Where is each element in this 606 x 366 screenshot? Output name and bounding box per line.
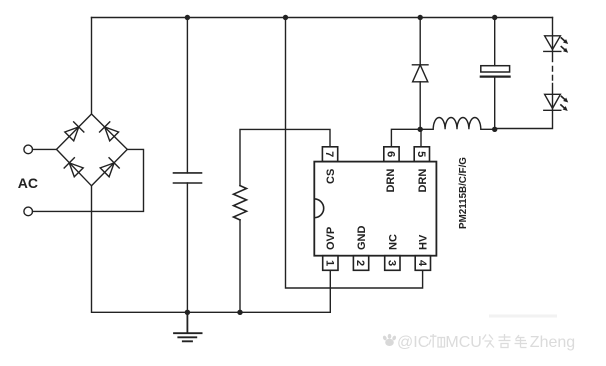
svg-text:CS: CS [325, 169, 337, 184]
svg-text:Zheng: Zheng [530, 334, 575, 351]
watermark faint upper remnant [489, 315, 557, 318]
svg-text:@IC: @IC [397, 334, 429, 351]
bridge rectifier diamond [57, 114, 128, 186]
svg-text:1: 1 [323, 260, 335, 266]
wire CS pin7 to resistor top [240, 129, 330, 185]
node dot switch node [418, 127, 423, 132]
node dot top bus / D5 [418, 15, 423, 20]
LED LED2 [544, 94, 570, 112]
AC terminal upper [24, 145, 33, 154]
wire LED string bottom [495, 84, 553, 129]
IC U1 notch [314, 199, 323, 218]
resistor R1 [234, 186, 247, 220]
svg-text:6: 6 [384, 151, 396, 157]
svg-text:PM2115B/C/F/G: PM2115B/C/F/G [458, 157, 469, 229]
watermark paw icon [382, 334, 397, 346]
diode D4 bottom-right arm [100, 158, 120, 178]
svg-text:5: 5 [415, 151, 427, 157]
svg-text:HV: HV [418, 234, 430, 250]
pin 4 box [415, 256, 430, 271]
wire pin 6 DRN to switch node [391, 129, 420, 147]
node dot output node [492, 127, 497, 132]
node dot ground bus / C1 [185, 310, 190, 315]
wire capacitor C2 branch [494, 18, 496, 130]
svg-text:7: 7 [323, 151, 335, 157]
inductor L1 [420, 118, 495, 130]
svg-text:4: 4 [416, 260, 428, 267]
svg-text:NC: NC [387, 234, 399, 250]
pin 5 box [414, 147, 429, 162]
wire diode D5 branch [419, 18, 421, 130]
node dot top bus / C1 [185, 15, 190, 20]
watermark pseudo glyph 3 [499, 334, 511, 348]
svg-text:DRN: DRN [417, 169, 429, 193]
watermark pseudo glyph 4 [515, 335, 528, 348]
watermark pseudo glyph 2 [483, 335, 495, 348]
svg-text:3: 3 [385, 260, 397, 266]
node dot top bus / C2 [492, 15, 497, 20]
wire AC upper to bridge left vertex [33, 148, 57, 150]
wire top bus [92, 17, 553, 19]
svg-text:GND: GND [356, 226, 368, 251]
pin 7 box [322, 147, 337, 162]
diode D1 top-left arm [64, 122, 84, 142]
svg-text:2: 2 [354, 260, 366, 266]
svg-text:DRN: DRN [385, 169, 397, 193]
capacitor C2 electrolytic top plate [481, 66, 510, 72]
wire capacitor C1 branch [186, 18, 188, 313]
node dot ground bus / R1 [237, 310, 242, 315]
LED LED1 [544, 36, 570, 55]
wire pin 5 DRN to switch node [420, 129, 422, 147]
wire bridge top to bus [91, 18, 93, 115]
diode D2 top-right arm [100, 122, 120, 142]
AC terminal lower [24, 207, 33, 216]
wire bridge bottom to ground bus and pin 1 [92, 186, 331, 312]
capacitor C2 bottom plate [481, 75, 510, 77]
svg-text:OVP: OVP [325, 227, 337, 250]
svg-text:MCU: MCU [445, 334, 481, 351]
pin 1 box [323, 256, 338, 271]
ground [174, 312, 202, 341]
watermark pseudo glyph 1 [429, 334, 445, 348]
wire HV: top bus to pin 4 [286, 18, 423, 289]
wire resistor bottom to ground bus [239, 220, 241, 312]
wire dashed between LEDs [552, 67, 554, 81]
watermark text latin parts [397, 334, 575, 351]
wire LED string top [552, 18, 554, 62]
node dot top bus / HV [283, 15, 288, 20]
wire AC lower to bridge right vertex [33, 149, 144, 211]
pin 3 box [385, 256, 400, 271]
diode D5 freewheeling [412, 65, 428, 82]
IC U1 body [314, 162, 436, 256]
pin 6 box [384, 147, 399, 162]
capacitor C1 [174, 173, 202, 183]
pin 2 box [353, 256, 368, 271]
svg-text:AC: AC [18, 175, 38, 191]
diode D3 bottom-left arm [64, 158, 84, 178]
